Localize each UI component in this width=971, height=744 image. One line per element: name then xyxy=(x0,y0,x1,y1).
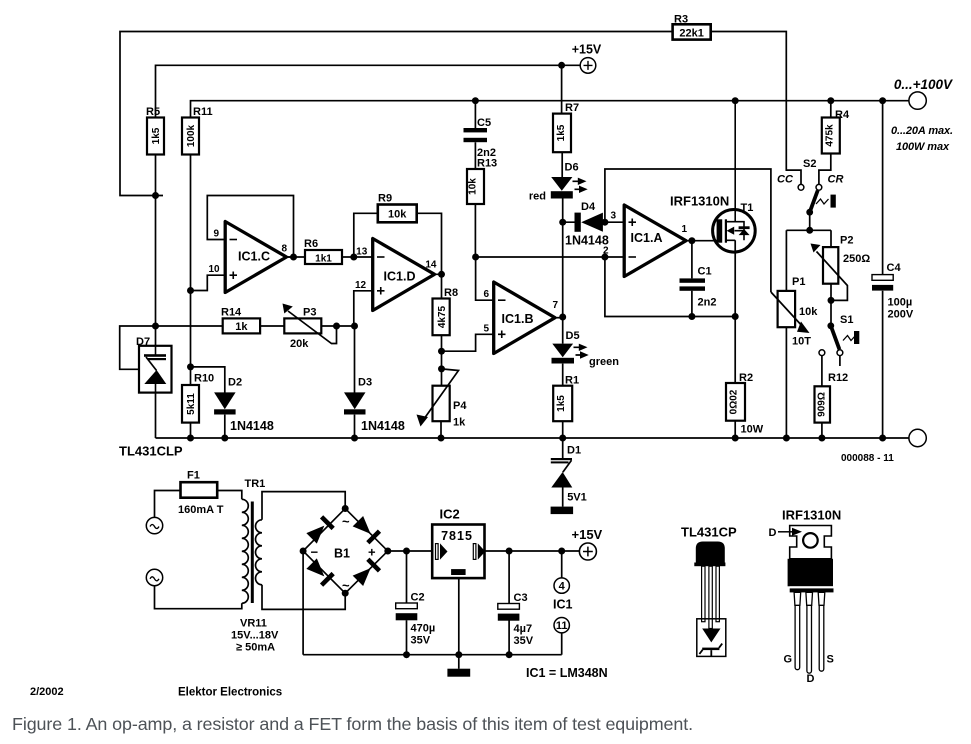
potentiometer P3 xyxy=(283,304,337,351)
svg-text:D: D xyxy=(807,673,815,685)
svg-text:IRF1310N: IRF1310N xyxy=(670,194,729,209)
svg-text:IC1: IC1 xyxy=(553,598,573,612)
svg-text:S: S xyxy=(827,654,834,666)
resistor R10 xyxy=(182,373,214,423)
wire R13 bottom xyxy=(474,204,476,257)
node S2 common junction xyxy=(806,227,813,234)
op-amp IC1.A xyxy=(603,205,688,277)
svg-text:160mA T: 160mA T xyxy=(178,504,224,516)
wire ground rail xyxy=(303,654,562,656)
svg-text:15V...18V: 15V...18V xyxy=(231,630,279,642)
capacitor C3 xyxy=(498,551,534,655)
node pin5 net junction xyxy=(438,348,445,355)
pin 4 IC1 supply xyxy=(554,551,569,593)
resistor R7 xyxy=(553,102,579,152)
capacitor C2 xyxy=(396,551,436,655)
zener D1 xyxy=(551,438,587,507)
capacitor C5 xyxy=(464,101,496,169)
wire B1 minus down xyxy=(302,551,304,655)
svg-text:F1: F1 xyxy=(187,470,200,482)
svg-text:7815: 7815 xyxy=(441,529,473,543)
wire R14/P3 row xyxy=(120,326,223,369)
node rail P4 xyxy=(438,435,445,442)
node +15V rail junction xyxy=(558,62,565,69)
wire R9 feedback loop xyxy=(354,213,442,274)
svg-text:C5: C5 xyxy=(477,117,491,129)
transistor T1 IRF1310N xyxy=(713,101,756,383)
svg-text:1N4148: 1N4148 xyxy=(230,419,274,433)
wire R14 to P3 xyxy=(260,325,284,327)
terminal mains N xyxy=(146,569,162,585)
svg-text:12: 12 xyxy=(355,280,367,291)
svg-text:G: G xyxy=(784,654,793,666)
wire R7/D6 vertical xyxy=(562,65,563,317)
svg-text:P1: P1 xyxy=(792,276,805,288)
svg-text:1k5: 1k5 xyxy=(556,124,567,141)
wire pin12 jog xyxy=(354,291,373,326)
wire R11 bottom to R10 xyxy=(190,155,192,386)
svg-text:1k: 1k xyxy=(453,417,466,429)
node P2 wiper junction xyxy=(828,297,835,304)
svg-text:5k11: 5k11 xyxy=(186,393,197,415)
svg-text:000088 - 11: 000088 - 11 xyxy=(841,453,894,464)
terminal output - xyxy=(909,429,926,446)
terminal mains L xyxy=(146,517,162,533)
switch S2 xyxy=(777,158,843,230)
svg-text:R13: R13 xyxy=(477,158,497,170)
resistor R13 xyxy=(467,158,497,205)
diode D2 1N4148 xyxy=(214,377,274,434)
svg-text:200V: 200V xyxy=(888,309,914,321)
wire +15V rail xyxy=(156,65,581,117)
node C4 top junction xyxy=(879,97,886,104)
node C5 top junction xyxy=(472,97,479,104)
svg-text:100W max: 100W max xyxy=(896,141,950,153)
pin 11 IC1 supply xyxy=(554,618,569,655)
svg-text:1: 1 xyxy=(681,224,687,235)
resistor R3 xyxy=(673,14,711,40)
svg-text:D2: D2 xyxy=(228,377,242,389)
svg-text:3: 3 xyxy=(610,211,616,222)
svg-text:D4: D4 xyxy=(581,201,596,213)
resistor R9 xyxy=(378,193,417,223)
wire D7 anode to rail xyxy=(155,393,157,438)
wire R8 to P4 xyxy=(441,335,443,386)
wire mains bottom to TR1 xyxy=(155,586,242,609)
node C3 top junction xyxy=(506,548,513,555)
wire D3 branch xyxy=(354,326,356,438)
svg-text:475k: 475k xyxy=(825,124,836,147)
wire B1 plus to IC2 xyxy=(388,550,432,552)
svg-text:1k1: 1k1 xyxy=(315,254,332,265)
svg-text:Figure 1. An op-amp, a resisto: Figure 1. An op-amp, a resistor and a FE… xyxy=(12,714,693,734)
wire R12 bottom xyxy=(821,423,823,438)
transformer TR1 xyxy=(231,478,279,654)
svg-text:0...20A max.: 0...20A max. xyxy=(891,125,953,137)
wire S1 to R12 xyxy=(821,356,823,387)
svg-text:IC1.A: IC1.A xyxy=(631,231,663,245)
svg-text:D3: D3 xyxy=(358,377,372,389)
svg-text:TR1: TR1 xyxy=(245,478,266,490)
svg-text:8: 8 xyxy=(281,244,287,255)
resistor R6 xyxy=(304,238,342,265)
svg-text:IC2: IC2 xyxy=(440,507,460,522)
svg-text:IC1.C: IC1.C xyxy=(238,250,270,264)
svg-text:+15V: +15V xyxy=(572,43,602,57)
node P3 wiper junction xyxy=(333,323,340,330)
wire bottom rail xyxy=(156,437,909,439)
wire TR1 secondary top to B1 xyxy=(262,492,345,520)
package TL431CP xyxy=(681,525,737,657)
svg-text:IC1.D: IC1.D xyxy=(384,270,416,284)
svg-text:R2: R2 xyxy=(739,372,753,384)
wire IC1.D out to R8 xyxy=(435,274,442,298)
svg-text:VR11: VR11 xyxy=(240,618,267,630)
svg-text:P3: P3 xyxy=(303,307,316,319)
node rail R10 xyxy=(187,435,194,442)
svg-text:250Ω: 250Ω xyxy=(843,253,870,265)
wire mains top to F1 xyxy=(155,491,181,518)
svg-text:D6: D6 xyxy=(565,162,579,174)
wire TR1 secondary bottom to B1 xyxy=(262,585,345,610)
svg-text:10: 10 xyxy=(209,264,221,275)
regulator IC2 7815 xyxy=(432,507,485,579)
node pin14 junction xyxy=(438,271,445,278)
svg-text:C1: C1 xyxy=(698,266,712,278)
node pin3 junction xyxy=(601,219,608,226)
svg-text:R14: R14 xyxy=(221,307,242,319)
diode D3 1N4148 xyxy=(344,377,405,434)
node R5/R3 junction xyxy=(152,192,159,199)
svg-text:−: − xyxy=(311,545,319,560)
node C2 top junction xyxy=(403,548,410,555)
svg-text:IRF1310N: IRF1310N xyxy=(782,508,841,523)
resistor R12 xyxy=(815,372,849,423)
svg-text:D1: D1 xyxy=(567,445,581,457)
svg-text:R3: R3 xyxy=(674,14,688,26)
svg-text:C3: C3 xyxy=(514,592,528,604)
svg-text:5: 5 xyxy=(483,324,489,335)
svg-text:R4: R4 xyxy=(835,109,850,121)
wire source sense row xyxy=(605,257,735,317)
op-amp IC1.D xyxy=(355,239,437,311)
svg-text:D5: D5 xyxy=(566,330,580,342)
svg-text:R7: R7 xyxy=(565,102,579,114)
op-amp IC1.B xyxy=(483,282,558,354)
node rail R1/D1 xyxy=(559,435,566,442)
node source junction xyxy=(732,313,739,320)
resistor R11 xyxy=(182,106,213,155)
wire IC1.C out to R6 xyxy=(287,256,305,258)
wire R2 bottom xyxy=(734,421,736,438)
svg-text:R11: R11 xyxy=(193,106,213,118)
svg-text:909Ω: 909Ω xyxy=(817,392,828,417)
svg-text:CR: CR xyxy=(828,174,844,186)
svg-text:B1: B1 xyxy=(334,547,350,561)
wire IC1.C pin9 feedback xyxy=(207,196,293,258)
resistor R1 xyxy=(553,375,579,422)
svg-text:1k5: 1k5 xyxy=(151,127,162,144)
ground symbol D1 xyxy=(551,507,574,514)
terminal output + xyxy=(894,77,953,109)
resistor R5 xyxy=(146,106,164,155)
svg-text:100µ: 100µ xyxy=(888,297,913,309)
package IRF1310N xyxy=(769,508,842,686)
svg-text:1k5: 1k5 xyxy=(556,395,567,412)
potentiometer P1 xyxy=(771,276,818,348)
svg-text:~: ~ xyxy=(342,514,350,529)
svg-text:IC1.B: IC1.B xyxy=(502,312,534,326)
fuse F1 xyxy=(178,470,224,517)
svg-text:+: + xyxy=(368,545,376,560)
node R4 top junction xyxy=(827,97,834,104)
wire P4 bottom xyxy=(440,421,442,438)
node R10 top junction xyxy=(187,363,194,370)
svg-text:4k75: 4k75 xyxy=(437,305,448,328)
svg-text:≥ 50mA: ≥ 50mA xyxy=(236,642,275,654)
svg-text:red: red xyxy=(529,191,546,203)
node rail C3 xyxy=(506,651,513,658)
LED D5 green xyxy=(552,317,620,386)
node R5/R14 junction xyxy=(152,323,159,330)
node T1 drain junction xyxy=(732,97,739,104)
node rail D2 xyxy=(221,435,228,442)
svg-text:S1: S1 xyxy=(840,314,853,326)
terminal +15V supply xyxy=(572,527,603,560)
svg-text:22k1: 22k1 xyxy=(679,27,703,39)
node pin7 junction xyxy=(559,314,566,321)
svg-text:10k: 10k xyxy=(468,178,479,195)
svg-text:4: 4 xyxy=(559,581,566,593)
wire pin3 to P1 wiper xyxy=(605,169,771,292)
svg-text:P4: P4 xyxy=(453,400,467,412)
wire pin2 row xyxy=(476,256,624,258)
resistor R8 xyxy=(433,287,459,335)
svg-text:9: 9 xyxy=(213,229,219,240)
ground symbol IC2 xyxy=(447,669,470,677)
wire pin3 xyxy=(605,221,624,223)
svg-text:10k: 10k xyxy=(388,209,407,221)
diode D4 1N4148 xyxy=(563,201,609,248)
wire R1 bottom xyxy=(562,421,564,438)
svg-text:R10: R10 xyxy=(194,373,214,385)
svg-text:R5: R5 xyxy=(146,106,160,118)
wire IC2 out xyxy=(485,550,580,552)
svg-text:C2: C2 xyxy=(411,592,425,604)
svg-text:CC: CC xyxy=(777,174,794,186)
wire IC1.B output xyxy=(555,317,563,319)
svg-text:6: 6 xyxy=(483,289,489,300)
svg-text:+15V: +15V xyxy=(572,527,603,542)
switch S1 xyxy=(819,314,859,366)
svg-text:5V1: 5V1 xyxy=(567,492,587,504)
resistor R4 xyxy=(819,101,850,185)
svg-text:S2: S2 xyxy=(803,158,816,170)
bridge rectifier B1 xyxy=(300,505,392,597)
capacitor C1 xyxy=(680,241,717,317)
svg-text:2n2: 2n2 xyxy=(698,297,717,309)
label max ratings xyxy=(891,125,953,153)
node rail C4 xyxy=(879,435,886,442)
wire P1 bottom xyxy=(785,327,787,438)
node P4 wiper junction xyxy=(438,365,445,372)
svg-text:1N4148: 1N4148 xyxy=(361,419,405,433)
wire IC1.A out to gate xyxy=(686,240,717,242)
svg-text:10T: 10T xyxy=(792,336,811,348)
wire F1 to TR1 xyxy=(217,491,242,500)
wire D2 branch xyxy=(191,367,225,438)
svg-text:13: 13 xyxy=(356,247,368,258)
svg-text:R8: R8 xyxy=(444,287,458,299)
wire P2 bottom xyxy=(830,284,832,326)
svg-text:C4: C4 xyxy=(887,262,902,274)
resistor R2 xyxy=(726,372,764,436)
svg-text:R6: R6 xyxy=(304,238,318,250)
node +15V out junction xyxy=(558,548,565,555)
potentiometer P4 xyxy=(417,369,468,429)
LED D6 red xyxy=(529,162,588,203)
node rail R2 xyxy=(732,435,739,442)
svg-text:470µ: 470µ xyxy=(411,623,436,635)
svg-text:35V: 35V xyxy=(411,635,431,647)
potentiometer P2 xyxy=(811,235,871,301)
svg-text:0...+100V: 0...+100V xyxy=(894,77,953,92)
node rail D3 xyxy=(351,435,358,442)
shunt regulator D7 TL431 xyxy=(136,336,172,393)
svg-text:100k: 100k xyxy=(186,124,197,147)
wire R3 top rail left xyxy=(120,32,673,196)
wire P3 to pin12 line xyxy=(321,325,354,327)
node pin12/D3 junction xyxy=(351,323,358,330)
svg-text:P2: P2 xyxy=(840,235,853,247)
resistor R14 xyxy=(221,307,260,334)
svg-text:2: 2 xyxy=(603,246,609,257)
svg-text:TL431CP: TL431CP xyxy=(681,525,737,540)
node C1 bottom junction xyxy=(688,313,695,320)
svg-text:20k: 20k xyxy=(290,338,309,350)
wire +100V rail xyxy=(191,101,909,118)
wire R6 to pin13 xyxy=(342,256,372,258)
svg-text:R1: R1 xyxy=(565,375,579,387)
node rail P1 xyxy=(783,435,790,442)
svg-text:D: D xyxy=(769,527,777,539)
node R11/pin10 junction xyxy=(187,287,194,294)
wire R5 bottom to D7 xyxy=(155,155,157,347)
wire pin5 net xyxy=(442,334,494,351)
svg-text:green: green xyxy=(589,356,619,368)
svg-text:1k: 1k xyxy=(235,321,248,333)
node R13/pin2/pin6 junction xyxy=(472,254,479,261)
node pin2 junction xyxy=(601,254,608,261)
svg-text:7: 7 xyxy=(553,300,559,311)
terminal +15V top xyxy=(572,43,602,74)
svg-text:14: 14 xyxy=(425,260,437,271)
node IC1.C output junction xyxy=(290,254,297,261)
op-amp IC1.C xyxy=(209,222,288,293)
node pin13 junction xyxy=(350,254,357,261)
node rail IC2 gnd xyxy=(455,651,462,658)
node gate/C1 junction xyxy=(688,237,695,244)
svg-text:2/2002: 2/2002 xyxy=(30,686,64,698)
svg-text:R12: R12 xyxy=(828,372,848,384)
svg-text:11: 11 xyxy=(556,620,568,632)
node rail R12 xyxy=(818,435,825,442)
svg-text:4µ7: 4µ7 xyxy=(514,623,533,635)
wire IC2 ground xyxy=(458,577,460,669)
node D4 anode junction xyxy=(559,219,566,226)
svg-text:TL431CLP: TL431CLP xyxy=(119,444,183,459)
svg-text:Elektor Electronics: Elektor Electronics xyxy=(178,687,282,699)
capacitor C4 xyxy=(872,101,914,438)
svg-text:10k: 10k xyxy=(799,306,818,318)
svg-text:10W: 10W xyxy=(741,424,764,436)
wire pin6 jog xyxy=(476,257,494,300)
wire R3 right to S2-CC xyxy=(711,32,801,185)
wire pin10 jog xyxy=(191,275,225,290)
svg-text:R9: R9 xyxy=(378,193,392,205)
svg-text:IC1 = LM348N: IC1 = LM348N xyxy=(526,666,608,680)
svg-text:35V: 35V xyxy=(514,635,534,647)
wire R10 bottom xyxy=(190,423,192,438)
wire S2 to P1/P2 tops xyxy=(786,230,831,291)
svg-text:0Ω02: 0Ω02 xyxy=(729,389,740,414)
node rail C2 xyxy=(403,651,410,658)
